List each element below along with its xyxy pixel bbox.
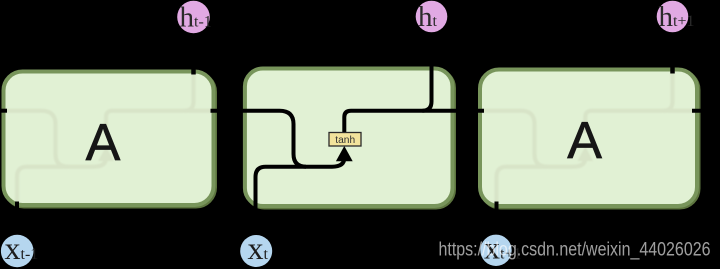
- cell box A(t+1) right: [480, 70, 697, 207]
- cell box shadow left: [5, 73, 215, 207]
- tanh activation box: [329, 133, 361, 147]
- node h(t): [416, 1, 448, 33]
- wire: arrow into left cell from canvas edge: [0, 109, 7, 113]
- wire: x(t) input rises, joins, runs right, stem up to tanh: [256, 153, 345, 241]
- svg-text:x: x: [5, 230, 21, 266]
- cell box A(t-1) left: [4, 72, 214, 206]
- svg-text:tanh: tanh: [335, 135, 355, 146]
- svg-text:h: h: [418, 1, 433, 33]
- svg-text:t-1: t-1: [194, 14, 212, 31]
- wire: tanh output up then right, exits middle cell toward right cell: [344, 111, 484, 133]
- svg-text:A: A: [567, 112, 602, 170]
- wire: x(t+1) riser into right cell bottom: [495, 202, 499, 237]
- svg-text:h: h: [180, 2, 195, 34]
- node h(t-1): [177, 1, 210, 34]
- cell box A(t) middle: [245, 69, 453, 207]
- svg-text:x: x: [248, 230, 264, 266]
- wire: h(t+1) drop from circle into right cell top: [670, 33, 675, 74]
- svg-text:A: A: [86, 114, 121, 172]
- wire: h(t-1) drop from circle into left cell top: [191, 33, 196, 75]
- svg-text:https://blog.csdn.net/weixin_4: https://blog.csdn.net/weixin_44026026: [439, 240, 711, 261]
- node x(t): [240, 235, 272, 267]
- svg-text:t: t: [264, 246, 269, 263]
- svg-text:h: h: [659, 1, 674, 33]
- wire: h(t-1) recurrent line from left cell into middle cell, bends down: [211, 111, 307, 167]
- wire: branch up to h(t) with fillet: [423, 33, 432, 111]
- node x(t-1): [1, 235, 34, 268]
- svg-text:t+1: t+1: [673, 13, 694, 30]
- svg-text:t: t: [433, 13, 438, 30]
- ghost internals left cell: [2, 72, 216, 208]
- node x(t+1): [480, 235, 511, 266]
- node h(t+1): [657, 1, 689, 33]
- ghost internals right cell: [478, 71, 700, 208]
- arrowhead into tanh: [336, 146, 353, 161]
- svg-text:t-1: t-1: [21, 246, 39, 263]
- cell box shadow middle: [246, 70, 454, 208]
- wire: x(t-1) riser into left cell bottom: [15, 202, 19, 238]
- cell box shadow right: [482, 71, 699, 208]
- wire: output exits right cell: [692, 109, 720, 113]
